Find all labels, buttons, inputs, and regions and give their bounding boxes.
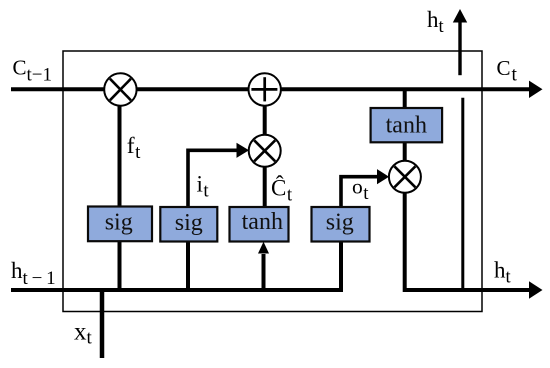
svg-text:tanh: tanh <box>242 209 283 235</box>
wire inner vertical recurrent line <box>461 98 464 290</box>
wire candidate C to tanh box <box>263 151 267 208</box>
arrowhead into tanh box <box>258 242 269 254</box>
gate box tanh (candidate) <box>230 207 289 242</box>
wire f path vertical (through sig1) <box>118 89 122 290</box>
gate box sig1 (forget) <box>88 207 152 242</box>
multiply node input gate <box>249 135 281 167</box>
arrowhead i into multiply <box>237 143 250 158</box>
wire i path below sig2 <box>186 241 190 290</box>
wire o path elbow with arrow <box>341 177 378 208</box>
wire C line (cell state, horizontal top rail) <box>11 87 530 91</box>
gate box sig2 (input) <box>160 207 217 242</box>
svg-text:sig: sig <box>105 210 133 236</box>
arrowhead C_t output <box>529 81 543 98</box>
arrowhead h_t up <box>453 9 467 23</box>
arrowhead o into multiply <box>377 169 389 184</box>
wire h_t up arrow shaft <box>458 22 461 76</box>
wire tanh5 to output multiply <box>403 141 407 162</box>
arrowhead h_t output <box>529 281 543 298</box>
wire C line into tanh5 <box>403 89 407 111</box>
multiply node forget gate <box>104 73 136 105</box>
svg-text:sig: sig <box>175 210 203 236</box>
svg-text:sig: sig <box>326 210 354 236</box>
gate box tanh5 (cell output) <box>371 108 443 142</box>
cell boundary box <box>63 51 482 312</box>
wire h_{t-1} rail (horizontal bottom rail, left part) <box>11 288 343 292</box>
svg-text:tanh: tanh <box>386 113 427 139</box>
wire h_t output path (down then right) <box>405 192 530 290</box>
wire i path elbow with arrow <box>188 150 237 208</box>
wire o path below sig4 <box>339 241 343 290</box>
wire add node to multiply node vertical <box>263 89 267 151</box>
multiply node output gate <box>389 161 421 193</box>
wire x_t input <box>100 290 105 358</box>
add node cell state <box>249 73 281 105</box>
wire tanh input arrow from rail <box>262 254 266 290</box>
gate box sig4 (output) <box>312 207 370 242</box>
